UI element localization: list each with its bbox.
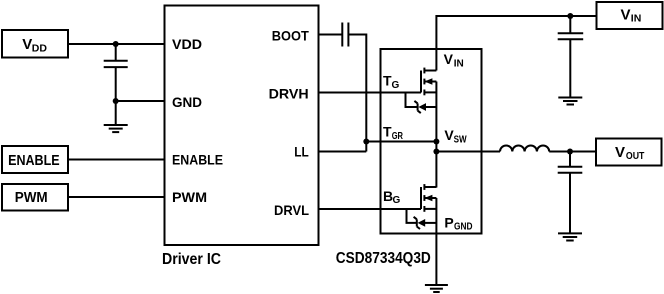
capacitor C1 (VDD bypass) (104, 44, 128, 101)
svg-text:G: G (392, 80, 400, 91)
wire BOOT (319, 34, 343, 36)
svg-text:OUT: OUT (626, 150, 645, 162)
wire DRVL to BG (319, 208, 422, 210)
svg-text:GR: GR (392, 131, 404, 142)
ground (input cap) (558, 98, 582, 105)
port VIN box (597, 2, 663, 29)
port VDD box (2, 30, 68, 58)
label VIN inside chip (444, 51, 464, 69)
capacitor C4 (output) (558, 152, 583, 234)
svg-text:V: V (615, 144, 625, 161)
svg-text:CSD87334Q3D: CSD87334Q3D (336, 250, 431, 267)
op-amp U1 Driver IC box (165, 6, 319, 246)
svg-text:V: V (621, 7, 631, 24)
inductor L1 (500, 145, 549, 151)
port VOUT box (596, 139, 662, 166)
wire bootstrap cap to switch node (348, 35, 366, 152)
svg-text:LL: LL (294, 144, 309, 160)
svg-text:IN: IN (631, 13, 642, 25)
label TG (383, 73, 400, 91)
wire GND to driver (116, 100, 165, 102)
svg-text:IN: IN (454, 58, 464, 69)
label VSW (444, 127, 467, 145)
wire PWM to driver (68, 196, 165, 198)
ground (power ground) (425, 285, 448, 292)
label BG (383, 188, 401, 206)
svg-text:DRVL: DRVL (274, 202, 309, 218)
junction dot TGR at FET line (433, 139, 439, 145)
svg-text:SW: SW (454, 134, 467, 145)
node VIN wire to VIN box (436, 16, 596, 71)
chip U2 CSD87334Q3D box (381, 49, 482, 234)
wire LL (319, 151, 367, 153)
transistor Q1 (high side FET) (421, 68, 436, 96)
label PGND (444, 214, 472, 232)
svg-text:Driver IC: Driver IC (162, 251, 221, 268)
svg-text:VDD: VDD (172, 36, 202, 52)
wire ENABLE to driver (68, 159, 165, 161)
diode D1 (Q1 gate zener) (406, 92, 437, 113)
label TGR (383, 124, 404, 142)
svg-text:GND: GND (172, 94, 202, 110)
ground (output cap) (558, 233, 582, 240)
diode D2 (Q2 gate zener) (407, 209, 437, 229)
svg-text:G: G (393, 195, 401, 206)
svg-text:DD: DD (32, 43, 48, 55)
junction dot boot/LL/TGR (363, 139, 369, 145)
svg-text:DRVH: DRVH (269, 86, 309, 102)
wire Q2 source down to PGND ground (435, 198, 437, 285)
svg-text:V: V (444, 51, 454, 67)
junction dot VOUT/C4 (567, 149, 573, 155)
svg-text:P: P (444, 214, 453, 230)
port PWM box (2, 184, 68, 211)
ground (VDD bypass) (104, 101, 128, 132)
transistor Q2 (low side FET) (421, 184, 436, 212)
junction dot GND/C1 (113, 98, 119, 104)
port ENABLE box (2, 146, 68, 173)
capacitor C2 (bootstrap) (342, 23, 348, 47)
junction dot VSW (433, 149, 439, 155)
svg-text:PWM: PWM (15, 189, 48, 206)
junction dot VDD/C1 (113, 41, 119, 47)
capacitor C3 (input) (558, 16, 584, 98)
wire VSW out to inductor (436, 151, 500, 153)
svg-text:BOOT: BOOT (272, 27, 309, 43)
junction dot VIN/C3 (567, 13, 573, 19)
svg-text:ENABLE: ENABLE (8, 152, 60, 169)
wire Q1 body-source down to VSW and TGR junctions (435, 82, 437, 188)
wire VDD to driver (68, 43, 165, 45)
wire TGR (366, 141, 436, 143)
svg-text:GND: GND (454, 222, 473, 233)
svg-text:ENABLE: ENABLE (172, 152, 223, 168)
svg-text:PWM: PWM (172, 189, 207, 205)
wire inductor to VOUT (549, 151, 596, 153)
wire DRVH to TG (319, 92, 422, 94)
svg-text:T: T (383, 124, 392, 140)
